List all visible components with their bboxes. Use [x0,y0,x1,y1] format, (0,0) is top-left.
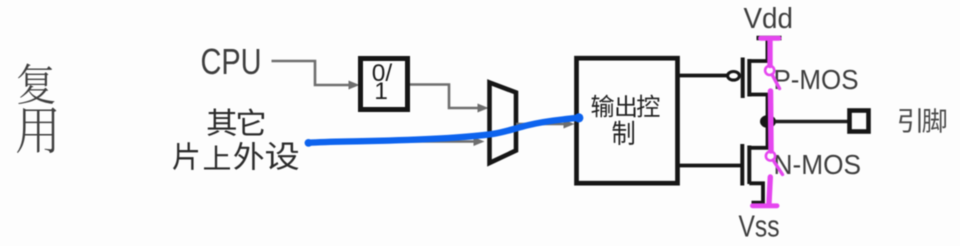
wire mux to output control [516,123,567,126]
mux (alternate-function multiplexer) [490,83,517,164]
pin square [850,111,869,132]
label 其它 (other) [207,108,264,136]
Vss rail bar [752,201,764,206]
label 复用 (multiplexed) [17,63,56,153]
wire output control to N-MOS gate [678,164,741,168]
wire CPU to select box [272,61,353,85]
output control box [577,58,678,183]
label 输出控制 (output control) [592,95,660,145]
wire select box to mux select input [410,85,481,109]
svg-text:1: 1 [374,78,388,105]
label 片上外设 (on-chip peripherals) [173,142,299,170]
svg-text:N-MOS: N-MOS [774,149,862,180]
magenta switch annotation over P-MOS [761,38,780,151]
blue annotation stroke (signal path) [308,118,579,143]
magenta switch annotation over N-MOS [753,151,783,205]
select box 0/1 [361,59,408,110]
wire node to pin [775,120,848,124]
svg-text:CPU: CPU [201,42,262,82]
node output junction [760,115,776,128]
transistor N-MOS [742,123,767,205]
wire peripherals to mux data input [309,140,477,143]
svg-text:P-MOS: P-MOS [774,64,859,95]
wire output control to P-MOS gate [678,74,728,78]
svg-text:Vss: Vss [739,209,780,244]
label 引脚 (pin) [899,108,946,133]
svg-text:Vdd: Vdd [744,3,794,35]
transistor P-MOS [728,40,768,120]
Vdd rail bar [757,36,782,41]
